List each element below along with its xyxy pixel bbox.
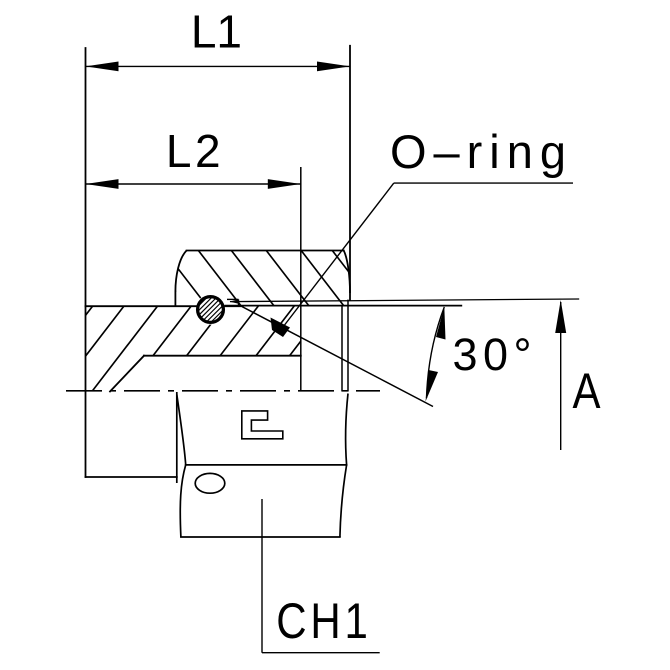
- white clearance around o-ring and groove mouth: [195, 294, 238, 324]
- nut thread bore vertical (inner): [341, 306, 343, 392]
- tube top edge: [144, 355, 301, 357]
- o-ring groove wall: [238, 299, 240, 306]
- dimension L1 line: [86, 65, 351, 67]
- nut top edge: [187, 250, 344, 252]
- 30 deg sealing cone line: [238, 305, 433, 407]
- CH1 leader vertical segment: [261, 499, 263, 653]
- nut cone right edge below centerline: [346, 394, 348, 465]
- hex left corner edge: [180, 465, 185, 537]
- svg-text:CH1: CH1: [276, 592, 371, 648]
- dimension L2 extension line: [300, 167, 302, 392]
- section hatching of nut (upper block): [123, 240, 381, 314]
- body bottom edge below centerline: [86, 476, 177, 478]
- svg-text:A: A: [573, 363, 601, 419]
- body top edge left of o-ring: [86, 305, 199, 307]
- dimension L2 line: [86, 183, 301, 185]
- dimension A reference small arrowhead at o-ring: [230, 299, 239, 303]
- manufacturer logo (stepped mark): [242, 411, 283, 439]
- hex right corner edge: [340, 465, 347, 537]
- svg-text:L1: L1: [191, 5, 242, 57]
- dimension A up arrowhead: [555, 300, 566, 333]
- dimension L1 left arrowhead: [86, 62, 119, 72]
- dimension A vertical line: [560, 302, 562, 450]
- o-ring inner hatch: [188, 286, 236, 331]
- bore chamfer edge: [110, 356, 144, 392]
- nut cone left edge below centerline: [177, 395, 186, 465]
- body top edge right of o-ring: [224, 305, 241, 307]
- dimension L1 right arrowhead: [317, 62, 350, 72]
- washer right face below centerline: [176, 392, 178, 483]
- 30 deg arc top arrowhead: [436, 307, 446, 340]
- O-ring leader underline: [394, 182, 573, 184]
- svg-text:30°: 30°: [453, 329, 532, 380]
- hex bottom edge: [181, 536, 340, 538]
- nut left edge: [174, 292, 176, 306]
- oval stamp on hex flat: [195, 473, 225, 493]
- nut top-right corner arc: [344, 251, 350, 294]
- hex shoulder line: [186, 464, 347, 466]
- O-ring leader diagonal: [283, 183, 394, 327]
- section hatching of body flange (lower-left block): [22, 296, 335, 398]
- nut right face (also extension line for L1): [349, 46, 351, 300]
- svg-text:L2: L2: [166, 125, 224, 177]
- 30 deg arc bottom arrowhead: [426, 370, 439, 402]
- nut bottom edge / 30 deg reference line: [226, 305, 462, 307]
- 30 deg dimension arc: [427, 307, 445, 398]
- body left face (also extension line for L1 and L2): [85, 48, 87, 477]
- O-ring leader arrowhead: [271, 318, 291, 338]
- dimension A reference line to o-ring: [230, 299, 579, 302]
- nut top-left corner arc: [175, 251, 186, 292]
- dimension L2 right arrowhead: [268, 179, 301, 189]
- centerline (dash-dot axis): [66, 390, 380, 392]
- dimension L2 left arrowhead: [86, 179, 119, 189]
- CH1 leader horizontal segment: [262, 652, 380, 654]
- o-ring cross-section circle: [198, 297, 224, 323]
- nut thread bore vertical (outer): [347, 300, 349, 392]
- o-ring groove top line: [227, 298, 239, 300]
- svg-text:O–ring: O–ring: [390, 125, 566, 178]
